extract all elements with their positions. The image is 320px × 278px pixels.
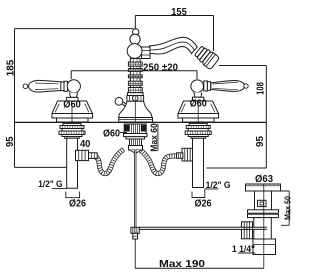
right valve body tube [193,138,204,187]
dimension 108/95 right vertical [265,66,267,169]
right hose fitting [177,153,183,159]
column collar with screw detail [127,93,144,102]
drain coupling nut [253,239,276,255]
svg-text:Ø60: Ø60 [103,128,120,140]
right handle base cone [178,101,219,114]
left handle neck [70,93,78,98]
drain set screw detail [258,200,267,206]
right handle collar ring [192,97,203,101]
left handle base skirt [52,114,93,119]
svg-text:Ø60: Ø60 [63,99,81,111]
column dome base [119,101,152,117]
center shank threaded tip [130,139,142,146]
center shank threaded block [124,124,146,134]
rod clamp [131,227,139,233]
dimension 155 line [135,16,213,52]
left hose fitting [89,153,98,159]
dimension 185 extension line top [15,28,134,30]
column ribbed shaft [128,59,142,93]
drain rod inlet nut [242,222,253,239]
right handle neck [194,92,202,97]
left handle grip [23,80,61,92]
column mid ball [130,34,140,44]
svg-text:Ø63: Ø63 [255,173,273,185]
right hose [140,149,179,173]
column big ball [127,44,142,59]
deck mounting surface line [15,121,267,123]
left hose [92,149,124,173]
dimension 108 top tick [219,65,266,67]
pop-up lift knob [115,97,128,107]
horizontal linkage rod [139,227,267,230]
center shank lower band [126,137,145,139]
svg-text:155: 155 [171,6,187,18]
svg-text:Max 60: Max 60 [149,123,160,152]
linkage rod through drain inlet [240,227,268,230]
svg-text:95: 95 [254,136,266,147]
left handle collar ring [67,97,78,101]
spout hex collar [142,47,151,59]
dimension 185/95 left vertical [14,29,16,168]
pop-up rod [134,150,136,227]
center dia leader [120,132,127,134]
rod ferrule [133,233,138,239]
max 190 dimension line [135,267,264,269]
center shank taper tip [130,150,141,154]
column centerline [134,101,136,122]
right dia 26 bracket [192,190,205,198]
svg-text:Ø26: Ø26 [195,198,212,210]
left handle ball [67,80,80,93]
drain rod inlet nut ridges [244,222,252,239]
left handle centerline [71,101,73,122]
svg-text:250 ±20: 250 ±20 [143,62,178,74]
svg-text:108: 108 [254,82,266,95]
drain body lower [254,218,271,239]
drain centerline [263,184,265,268]
left handle base cone [52,101,93,114]
max 50 dimension [281,191,290,225]
column top knob [133,29,139,35]
left valve tee nut [76,150,89,160]
svg-text:Max 50: Max 50 [283,196,293,220]
right handle ball [191,80,204,93]
center shank bottom nut [129,146,143,151]
svg-text:40: 40 [80,138,91,150]
right valve tee nut [182,148,193,161]
center shank flange nut [124,134,148,137]
drain locknut bands [248,210,279,218]
dimension 250 +-20 line [71,71,197,79]
max 190 left extension [134,239,136,268]
right 1/2 G leader [204,188,218,190]
right valve locknut stack [185,123,211,138]
left valve locknut stack [59,123,85,138]
left valve body tube [67,138,78,188]
spout tube [150,37,198,54]
right handle base skirt [178,114,219,119]
spout nozzle bands [193,44,219,69]
1 1/4 underline [238,252,255,254]
left dia 26 bracket [66,192,80,198]
svg-text:Ø26: Ø26 [69,198,86,210]
right handle grip [211,80,248,91]
svg-text:95: 95 [4,136,16,147]
drain body upper [255,191,272,210]
drain flange [246,184,281,191]
column base plate [119,118,153,123]
right handle centerline [197,101,199,122]
svg-text:Ø60: Ø60 [190,98,207,110]
left handle ferrule [61,81,68,91]
dimension 95 right bottom tick [207,167,267,169]
dimension 95 left bottom tick [15,166,67,168]
right handle ferrule [204,81,211,91]
left 1/2 G leader [52,188,67,190]
max 60 vertical line [157,124,159,152]
svg-text:Max 190: Max 190 [159,258,205,270]
svg-text:185: 185 [5,60,17,77]
